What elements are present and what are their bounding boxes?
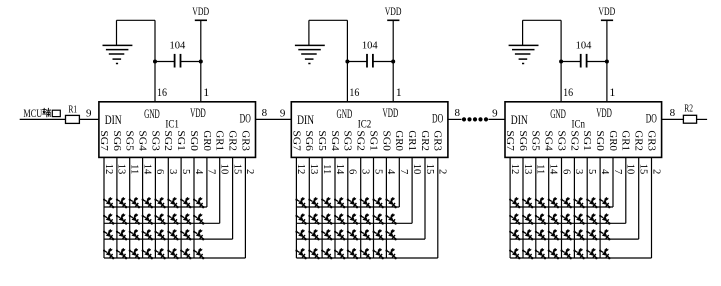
junction cap-VDD IC1	[199, 60, 203, 64]
LED IC2 r4c6	[360, 248, 371, 259]
wire column SG0 IC1	[193, 157, 195, 258]
svg-text:GR0: GR0	[393, 130, 404, 151]
wire GR2 IC2	[424, 157, 426, 239]
LED IC1 r1c8	[193, 197, 204, 208]
LED IC1 r4c5	[154, 248, 165, 259]
wire column SG2 IC1	[167, 157, 169, 258]
junction cap-VDD IC2	[391, 60, 395, 64]
LED IC2 r2c3	[321, 213, 332, 224]
LED ICn r3c8	[599, 229, 610, 240]
svg-text:SG5: SG5	[316, 130, 327, 151]
LED ICn r3c4	[548, 229, 559, 240]
wire row GR2 IC1	[104, 238, 233, 240]
LED IC2 r1c7	[373, 197, 384, 208]
ground IC1	[103, 20, 133, 63]
junction cap-GND ICn	[559, 60, 563, 64]
wire column SG6 IC2	[308, 157, 310, 258]
capacitor 104 IC2	[347, 39, 393, 67]
wire row GR0 IC1	[104, 206, 207, 208]
svg-text:SG1: SG1	[367, 130, 378, 151]
svg-text:SG3: SG3	[342, 130, 353, 151]
svg-text:SG3: SG3	[149, 130, 160, 151]
wire GR3 IC1	[244, 157, 246, 258]
LED ICn r4c4	[548, 248, 559, 259]
wire row GR2 IC2	[296, 238, 425, 240]
LED ICn r2c5	[561, 213, 572, 224]
LED ICn r2c8	[599, 213, 610, 224]
LED IC2 r4c7	[373, 248, 384, 259]
wire VDD to pin1 IC2	[392, 20, 394, 102]
svg-text:GR2: GR2	[227, 130, 238, 151]
LED IC2 r3c4	[334, 229, 345, 240]
svg-text:GR0: GR0	[201, 130, 212, 151]
svg-text:16: 16	[349, 85, 359, 99]
wire GR1 ICn	[625, 157, 627, 223]
LED ICn r1c7	[586, 197, 597, 208]
svg-text:VDD: VDD	[190, 106, 206, 120]
svg-text:104: 104	[170, 39, 186, 51]
wire column SG4 ICn	[548, 157, 550, 258]
wire column SG7 ICn	[509, 157, 511, 258]
svg-text:GR3: GR3	[239, 130, 250, 151]
svg-text:ICn: ICn	[572, 117, 586, 131]
node MCU port label	[23, 108, 60, 120]
wire VDD to pin1 ICn	[606, 20, 608, 102]
power VDD rail IC1	[192, 6, 209, 20]
LED ICn r3c2	[522, 229, 533, 240]
wire column SG7 IC1	[103, 157, 105, 258]
wire GR2 IC1	[232, 157, 234, 239]
LED IC1 r1c6	[167, 197, 178, 208]
svg-text:VDD: VDD	[192, 6, 209, 18]
wire column SG5 IC1	[129, 157, 131, 258]
op-amp ... IC chip IC2	[291, 102, 448, 158]
wire column SG7 IC2	[295, 157, 297, 258]
svg-text:SG0: SG0	[188, 130, 199, 151]
ground IC2	[295, 20, 325, 63]
svg-text:VDD: VDD	[385, 6, 402, 18]
svg-text:DIN: DIN	[105, 112, 122, 127]
wire column SG4 IC2	[334, 157, 336, 258]
LED IC1 r2c4	[142, 213, 153, 224]
wire column SG5 IC2	[321, 157, 323, 258]
svg-text:SG6: SG6	[303, 130, 314, 151]
svg-text:GND: GND	[550, 107, 566, 121]
LED IC2 r2c5	[347, 213, 358, 224]
op-amp ... IC chip IC1	[99, 102, 256, 158]
svg-text:GR1: GR1	[406, 130, 417, 151]
LED IC1 r1c7	[180, 197, 191, 208]
LED ICn r4c7	[586, 248, 597, 259]
svg-text:1: 1	[396, 85, 402, 99]
LED IC1 r4c2	[116, 248, 127, 259]
LED IC1 r1c4	[142, 197, 153, 208]
LED IC1 r2c2	[116, 213, 127, 224]
LED IC2 r3c5	[347, 229, 358, 240]
LED ICn r1c4	[548, 197, 559, 208]
LED IC1 r2c6	[167, 213, 178, 224]
LED ICn r3c1	[509, 229, 520, 240]
LED IC2 r2c6	[360, 213, 371, 224]
wire ground to GND pin16 IC2	[309, 20, 348, 102]
svg-text:GR3: GR3	[432, 130, 443, 151]
LED IC2 r4c4	[334, 248, 345, 259]
svg-text:DO: DO	[240, 111, 251, 126]
wire VDD to pin1 IC1	[200, 20, 202, 102]
LED IC2 r3c1	[295, 229, 306, 240]
resistor R2	[683, 104, 696, 124]
wire R1 to IC1 DIN	[79, 118, 99, 120]
LED ICn r2c6	[573, 213, 584, 224]
svg-text:1: 1	[203, 85, 209, 99]
wire IC2 DO out	[448, 118, 462, 120]
LED IC2 r3c2	[308, 229, 319, 240]
wire column SG6 IC1	[116, 157, 118, 258]
LED ICn r2c1	[509, 213, 520, 224]
LED IC1 r1c5	[154, 197, 165, 208]
wire R2 output	[697, 118, 708, 120]
svg-text:GR0: GR0	[607, 130, 618, 151]
svg-text:SG1: SG1	[581, 130, 592, 151]
LED ICn r4c8	[599, 248, 610, 259]
LED ICn r1c2	[522, 197, 533, 208]
LED ICn r4c1	[509, 248, 520, 259]
wire IC1 DO to IC2 DIN	[256, 118, 292, 120]
LED IC1 r3c2	[116, 229, 127, 240]
wire column SG3 IC1	[154, 157, 156, 258]
LED IC2 r1c5	[347, 197, 358, 208]
junction cap-GND IC1	[153, 60, 157, 64]
svg-text:GR3: GR3	[645, 130, 656, 151]
power VDD rail IC2	[385, 6, 402, 20]
LED ICn r4c6	[573, 248, 584, 259]
wire row GR3 IC1	[104, 257, 245, 259]
svg-text:SG6: SG6	[111, 130, 122, 151]
svg-text:9: 9	[86, 108, 92, 120]
svg-text:SG0: SG0	[380, 130, 391, 151]
svg-text:9: 9	[492, 108, 498, 120]
LED IC2 r1c8	[385, 197, 396, 208]
wire GR2 ICn	[638, 157, 640, 239]
LED ICn r1c5	[561, 197, 572, 208]
LED ICn r1c1	[509, 197, 520, 208]
LED ICn r4c3	[535, 248, 546, 259]
svg-text:SG2: SG2	[162, 130, 173, 151]
LED IC1 r3c4	[142, 229, 153, 240]
wire GR1 IC2	[411, 157, 413, 223]
svg-text:SG4: SG4	[329, 130, 340, 151]
wire GR0 IC2	[398, 157, 400, 207]
LED ICn r2c2	[522, 213, 533, 224]
svg-text:SG7: SG7	[98, 130, 109, 151]
LED IC2 r4c2	[308, 248, 319, 259]
svg-text:SG2: SG2	[355, 130, 366, 151]
LED IC2 r3c8	[385, 229, 396, 240]
LED IC1 r1c2	[116, 197, 127, 208]
LED IC1 r3c5	[154, 229, 165, 240]
svg-text:GR1: GR1	[620, 130, 631, 151]
wire ground to GND pin16 IC1	[117, 20, 156, 102]
svg-text:SG0: SG0	[594, 130, 605, 151]
wire column SG1 IC2	[373, 157, 375, 258]
wire row GR0 IC2	[296, 206, 399, 208]
wire column SG0 ICn	[599, 157, 601, 258]
LED IC2 r1c6	[360, 197, 371, 208]
wire MCU input	[20, 118, 66, 120]
svg-text:R1: R1	[68, 104, 77, 115]
wire row GR1 IC1	[104, 222, 220, 224]
svg-text:104: 104	[576, 39, 592, 51]
wire into ICn DIN	[489, 118, 506, 120]
LED IC1 r4c6	[167, 248, 178, 259]
svg-text:SG4: SG4	[543, 130, 554, 151]
svg-text:SG3: SG3	[555, 130, 566, 151]
LED IC1 r4c4	[142, 248, 153, 259]
LED IC2 r3c7	[373, 229, 384, 240]
wire row GR1 ICn	[510, 222, 626, 224]
LED ICn r3c5	[561, 229, 572, 240]
LED IC1 r3c7	[180, 229, 191, 240]
LED IC2 r4c1	[295, 248, 306, 259]
wire row GR1 IC2	[296, 222, 412, 224]
resistor R1	[66, 104, 80, 123]
LED IC1 r1c1	[103, 197, 114, 208]
LED IC2 r4c8	[385, 248, 396, 259]
LED ICn r3c3	[535, 229, 546, 240]
svg-text:SG4: SG4	[137, 130, 148, 151]
svg-text:GR2: GR2	[419, 130, 430, 151]
LED ICn r3c7	[586, 229, 597, 240]
LED IC2 r2c8	[385, 213, 396, 224]
power VDD rail ICn	[598, 6, 615, 20]
wire GR0 ICn	[612, 157, 614, 207]
LED IC1 r4c8	[193, 248, 204, 259]
wire column SG2 IC2	[360, 157, 362, 258]
LED ICn r4c2	[522, 248, 533, 259]
op-amp ... IC chip ICn	[505, 102, 662, 158]
svg-text:IC1: IC1	[165, 117, 179, 131]
LED IC2 r4c3	[321, 248, 332, 259]
LED ICn r2c7	[586, 213, 597, 224]
LED IC2 r2c1	[295, 213, 306, 224]
LED IC1 r4c1	[103, 248, 114, 259]
wire column SG3 IC2	[347, 157, 349, 258]
wire column SG6 ICn	[522, 157, 524, 258]
LED IC1 r3c3	[129, 229, 140, 240]
svg-text:104: 104	[362, 39, 378, 51]
svg-text:GND: GND	[337, 107, 353, 121]
LED IC2 r1c1	[295, 197, 306, 208]
LED IC1 r3c1	[103, 229, 114, 240]
LED IC2 r4c5	[347, 248, 358, 259]
svg-text:DIN: DIN	[511, 112, 528, 127]
svg-text:16: 16	[157, 85, 167, 99]
LED IC2 r3c6	[360, 229, 371, 240]
svg-text:1: 1	[609, 85, 615, 99]
LED IC1 r3c6	[167, 229, 178, 240]
wire column SG2 ICn	[573, 157, 575, 258]
svg-text:DIN: DIN	[297, 112, 314, 127]
wire GR1 IC1	[219, 157, 221, 223]
LED ICn r3c6	[573, 229, 584, 240]
svg-text:8: 8	[670, 107, 676, 119]
svg-text:SG7: SG7	[290, 130, 301, 151]
LED ICn r4c5	[561, 248, 572, 259]
LED IC1 r4c3	[129, 248, 140, 259]
ground ICn	[509, 20, 539, 63]
LED ICn r2c3	[535, 213, 546, 224]
LED IC1 r4c7	[180, 248, 191, 259]
wire row GR2 ICn	[510, 238, 639, 240]
LED IC2 r1c3	[321, 197, 332, 208]
wire column SG1 IC1	[180, 157, 182, 258]
node ellipsis dots	[462, 117, 488, 121]
LED IC1 r2c3	[129, 213, 140, 224]
svg-text:GR1: GR1	[214, 130, 225, 151]
svg-text:16: 16	[563, 85, 573, 99]
wire GR3 IC2	[437, 157, 439, 258]
svg-text:DO: DO	[646, 111, 657, 126]
svg-text:MCU: MCU	[23, 108, 42, 120]
svg-text:SG1: SG1	[175, 130, 186, 151]
LED IC1 r2c8	[193, 213, 204, 224]
svg-text:SG5: SG5	[530, 130, 541, 151]
wire row GR3 ICn	[510, 257, 651, 259]
svg-text:SG2: SG2	[568, 130, 579, 151]
svg-text:VDD: VDD	[383, 106, 399, 120]
wire row GR0 ICn	[510, 206, 613, 208]
LED IC2 r2c7	[373, 213, 384, 224]
junction cap-VDD ICn	[605, 60, 609, 64]
svg-text:VDD: VDD	[598, 6, 615, 18]
wire GR0 IC1	[206, 157, 208, 207]
wire column SG0 IC2	[385, 157, 387, 258]
wire column SG5 ICn	[535, 157, 537, 258]
junction cap-GND IC2	[345, 60, 349, 64]
wire column SG3 ICn	[561, 157, 563, 258]
LED IC1 r2c1	[103, 213, 114, 224]
LED IC2 r2c4	[334, 213, 345, 224]
wire GR3 ICn	[651, 157, 653, 258]
svg-text:8: 8	[454, 107, 460, 119]
wire ICn DO to R2	[662, 118, 684, 120]
wire column SG1 ICn	[586, 157, 588, 258]
svg-text:DO: DO	[432, 111, 443, 126]
LED IC1 r2c5	[154, 213, 165, 224]
svg-text:SG6: SG6	[517, 130, 528, 151]
wire row GR3 IC2	[296, 257, 437, 259]
LED IC2 r1c2	[308, 197, 319, 208]
svg-text:VDD: VDD	[596, 106, 612, 120]
LED IC1 r1c3	[129, 197, 140, 208]
LED IC1 r2c7	[180, 213, 191, 224]
wire ground to GND pin16 ICn	[523, 20, 562, 102]
svg-text:R2: R2	[684, 104, 693, 115]
svg-text:GND: GND	[144, 107, 160, 121]
capacitor 104 IC1	[155, 39, 201, 67]
svg-text:SG7: SG7	[504, 130, 515, 151]
capacitor 104 ICn	[561, 39, 607, 67]
LED IC2 r1c4	[334, 197, 345, 208]
LED IC2 r3c3	[321, 229, 332, 240]
svg-text:9: 9	[280, 108, 286, 120]
LED IC2 r2c2	[308, 213, 319, 224]
LED IC1 r3c8	[193, 229, 204, 240]
LED ICn r2c4	[548, 213, 559, 224]
LED ICn r1c8	[599, 197, 610, 208]
svg-text:SG5: SG5	[124, 130, 135, 151]
svg-text:IC2: IC2	[358, 117, 372, 131]
LED ICn r1c3	[535, 197, 546, 208]
LED ICn r1c6	[573, 197, 584, 208]
wire column SG4 IC1	[142, 157, 144, 258]
svg-text:8: 8	[262, 107, 268, 119]
svg-text:GR2: GR2	[633, 130, 644, 151]
